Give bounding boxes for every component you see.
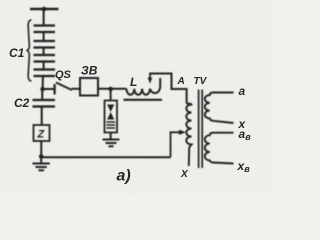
switch QS xyxy=(45,88,55,90)
paper scan noise xyxy=(0,0,1,1)
impedance box Z xyxy=(34,125,50,141)
inductor core bar xyxy=(124,99,163,101)
tap arrow into primary xyxy=(171,132,180,157)
wire antenna down lead xyxy=(43,9,45,25)
wire xyxy=(43,32,45,41)
transformer TV primary winding xyxy=(186,104,191,167)
wire xyxy=(43,48,45,56)
ground (left) xyxy=(33,157,50,171)
node bottom junction xyxy=(39,154,44,159)
wire xyxy=(72,88,81,90)
node antenna junction xyxy=(42,7,47,12)
wire xyxy=(41,107,43,126)
capacitor C1 chain section 1 xyxy=(34,26,56,33)
bell box 3B xyxy=(80,78,98,96)
wire xyxy=(40,141,42,156)
node arrester junction xyxy=(108,87,113,92)
transformer core xyxy=(198,90,200,169)
wire xyxy=(98,88,127,90)
capacitor C1 chain section 3 xyxy=(34,55,56,62)
wire xyxy=(110,133,112,140)
transformer secondary winding 2 xyxy=(205,133,234,164)
wire xyxy=(41,89,43,100)
inductor L xyxy=(127,78,161,95)
wire xyxy=(42,76,44,88)
tap arrow on L xyxy=(149,74,151,79)
node junction to QS xyxy=(40,87,45,92)
transformer secondary winding 1 xyxy=(205,93,234,124)
wire bottom bus xyxy=(41,156,170,158)
capacitor C1 chain section 4 xyxy=(34,70,56,77)
ground (arrester) xyxy=(103,140,120,147)
capacitor C1 chain section 2 xyxy=(34,41,56,48)
brace for C1 xyxy=(27,20,32,81)
arrester box xyxy=(110,89,112,101)
arrester electrodes (hourglass arrows) xyxy=(107,105,114,113)
wire tap to A xyxy=(149,74,186,104)
wire antenna top bar xyxy=(30,8,59,10)
wire xyxy=(43,62,45,70)
capacitor C2 xyxy=(33,100,56,107)
